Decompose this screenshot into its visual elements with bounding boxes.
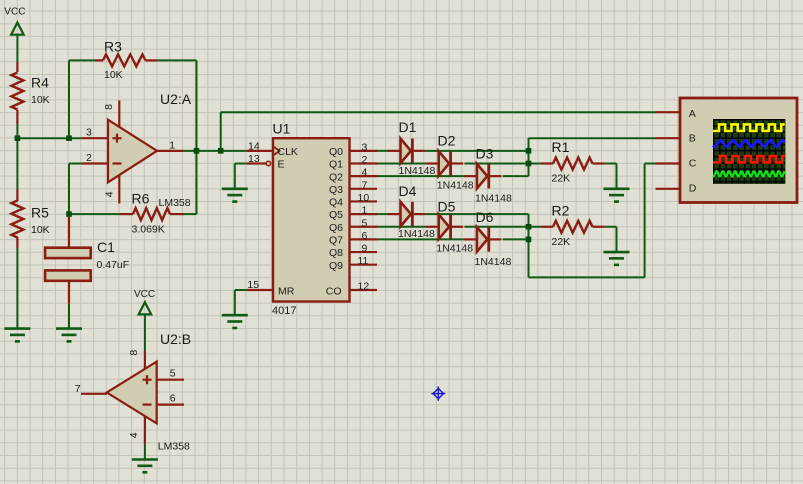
- svg-text:1N4148: 1N4148: [475, 192, 512, 204]
- svg-text:VCC: VCC: [134, 289, 155, 300]
- svg-text:6: 6: [170, 393, 176, 405]
- svg-text:22K: 22K: [552, 173, 571, 185]
- svg-text:1N4148: 1N4148: [437, 179, 474, 191]
- svg-text:Q0: Q0: [329, 146, 343, 158]
- svg-text:R6: R6: [132, 191, 150, 207]
- svg-text:Q2: Q2: [329, 171, 343, 183]
- svg-text:4: 4: [362, 167, 368, 179]
- svg-text:A: A: [689, 108, 696, 120]
- svg-text:D2: D2: [438, 132, 456, 148]
- svg-text:1: 1: [362, 205, 368, 217]
- svg-text:1: 1: [169, 139, 175, 151]
- svg-text:8: 8: [103, 104, 115, 110]
- svg-text:D: D: [689, 182, 697, 194]
- svg-text:13: 13: [248, 153, 260, 165]
- svg-text:6: 6: [362, 230, 368, 242]
- svg-text:B: B: [689, 133, 696, 145]
- svg-text:LM358: LM358: [159, 197, 191, 209]
- svg-text:5: 5: [170, 368, 176, 380]
- svg-text:U2:A: U2:A: [160, 91, 192, 107]
- svg-text:1N4148: 1N4148: [399, 165, 436, 177]
- svg-text:1N4148: 1N4148: [436, 243, 473, 255]
- svg-text:4017: 4017: [272, 305, 296, 317]
- svg-text:R5: R5: [31, 205, 49, 221]
- svg-text:3: 3: [86, 127, 92, 139]
- svg-text:Q6: Q6: [329, 222, 343, 234]
- svg-text:Q7: Q7: [329, 235, 343, 247]
- svg-text:Q1: Q1: [329, 159, 343, 171]
- svg-text:MR: MR: [278, 285, 295, 297]
- svg-text:U1: U1: [273, 120, 291, 136]
- svg-text:4: 4: [128, 432, 140, 438]
- svg-text:Q8: Q8: [329, 247, 343, 259]
- svg-text:9: 9: [362, 243, 368, 255]
- svg-text:11: 11: [358, 255, 369, 267]
- svg-text:C: C: [689, 158, 697, 170]
- svg-text:3: 3: [362, 141, 368, 153]
- svg-text:1N4148: 1N4148: [475, 256, 512, 268]
- svg-text:10K: 10K: [31, 94, 50, 106]
- svg-text:D3: D3: [476, 146, 494, 162]
- svg-text:LM358: LM358: [158, 440, 190, 452]
- svg-text:3.069K: 3.069K: [132, 223, 165, 235]
- svg-text:7: 7: [362, 179, 368, 191]
- svg-text:2: 2: [362, 154, 368, 166]
- svg-text:8: 8: [128, 350, 140, 356]
- svg-text:2: 2: [86, 152, 92, 164]
- svg-text:R1: R1: [552, 139, 570, 155]
- svg-text:12: 12: [358, 281, 370, 293]
- svg-text:10: 10: [358, 192, 370, 204]
- svg-text:5: 5: [362, 217, 368, 229]
- svg-text:22K: 22K: [552, 236, 571, 248]
- svg-text:R2: R2: [552, 202, 570, 218]
- svg-text:0.47uF: 0.47uF: [97, 259, 130, 271]
- svg-text:U2:B: U2:B: [160, 331, 191, 347]
- svg-text:D6: D6: [476, 209, 494, 225]
- svg-text:Q5: Q5: [329, 209, 343, 221]
- svg-text:Q9: Q9: [329, 260, 343, 272]
- svg-text:CLK: CLK: [278, 146, 298, 158]
- svg-text:7: 7: [75, 383, 81, 395]
- svg-text:4: 4: [104, 191, 116, 197]
- svg-text:15: 15: [247, 279, 259, 291]
- svg-text:10K: 10K: [31, 224, 50, 236]
- svg-text:Q4: Q4: [329, 197, 343, 209]
- svg-text:VCC: VCC: [4, 6, 25, 17]
- svg-text:Q3: Q3: [329, 184, 343, 196]
- svg-text:1N4148: 1N4148: [398, 228, 435, 240]
- svg-text:CO: CO: [326, 285, 342, 297]
- svg-text:R4: R4: [31, 75, 49, 91]
- svg-text:E: E: [278, 159, 285, 171]
- svg-text:10K: 10K: [104, 69, 123, 81]
- svg-text:D4: D4: [399, 183, 417, 199]
- svg-text:R3: R3: [104, 39, 122, 55]
- svg-text:D5: D5: [438, 198, 456, 214]
- svg-text:C1: C1: [97, 239, 115, 255]
- svg-text:D1: D1: [399, 119, 417, 135]
- svg-text:14: 14: [248, 140, 260, 152]
